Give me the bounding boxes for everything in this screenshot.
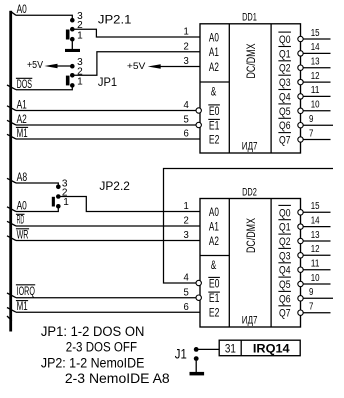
power +5V arrow wire to DD1 pin 3: [148, 64, 200, 69]
wire A1 (bus to DD1 pin 4): [16, 110, 196, 112]
svg-text:11: 11: [311, 259, 320, 270]
bus (address/data bus rail): [9, 11, 12, 332]
DD2 inversion bubble Q4: [298, 267, 303, 272]
svg-text:3: 3: [184, 230, 190, 241]
DD2 output wire Q4 pin 11: [303, 269, 330, 271]
DD2 input label A2: [209, 234, 219, 248]
label M1: [16, 127, 28, 139]
svg-text:5: 5: [184, 115, 190, 126]
DD1 output label Q5: [278, 104, 291, 118]
JP2.2 pin 3 label: [62, 178, 68, 189]
connector J1: [194, 347, 199, 361]
ground under JP2.1: [65, 41, 80, 52]
DD1 inversion bubble Q6: [298, 123, 303, 128]
DD2 enable label E2: [209, 306, 220, 320]
DD1 inversion bubble Q4: [298, 94, 303, 99]
DD1 output label Q2: [278, 61, 291, 75]
svg-text:A1: A1: [209, 45, 219, 59]
DD1 input label A0: [209, 30, 219, 44]
svg-text:JP2.1: JP2.1: [98, 13, 132, 27]
svg-text:12: 12: [311, 244, 320, 255]
DD1 pin 1 number: [184, 27, 190, 38]
svg-text:31: 31: [225, 342, 236, 356]
label IORQ: [16, 284, 35, 298]
svg-text:Q3: Q3: [279, 250, 291, 262]
DD2 output label Q3: [278, 248, 291, 262]
DD1 inversion bubble Q0: [298, 36, 303, 41]
DD1 inversion bubble pin 4: [196, 108, 201, 113]
svg-text:A1: A1: [209, 219, 219, 233]
JP2.1 pin 3 label: [77, 11, 83, 22]
power +5V label (left): [27, 60, 43, 71]
DD1 inversion bubble Q1: [298, 51, 303, 56]
svg-text:RD: RD: [17, 215, 25, 227]
bus stub tick: [7, 316, 12, 321]
svg-text:10: 10: [311, 273, 320, 284]
DD1 AND-qualifier symbol: [211, 87, 217, 99]
svg-text:DOS: DOS: [17, 79, 33, 91]
svg-text:Q1: Q1: [279, 222, 291, 234]
DD2 output pin 9 number: [309, 287, 314, 298]
DD2 output pin 12 number: [311, 244, 320, 255]
DD1 output wire Q5 pin 10: [303, 110, 330, 112]
svg-text:M1: M1: [17, 128, 28, 140]
svg-text:Q3: Q3: [279, 77, 291, 89]
DD1 inversion bubble pin 5: [196, 122, 201, 127]
DD2 output wire Q5 pin 10: [303, 283, 330, 285]
DD1 output wire Q2 pin 13: [303, 67, 330, 69]
DD2 inversion bubble pin 5: [196, 295, 201, 300]
DD1 output pin 13 number: [311, 57, 320, 68]
wire IORQ (bus to DD2 pin 5): [16, 297, 196, 299]
label M1 second: [16, 301, 28, 313]
DD2 pin 6 number: [184, 302, 190, 313]
svg-text:1: 1: [184, 201, 190, 212]
wire DOS (bus to JP1 pin 1): [16, 85, 72, 89]
DD1 inversion bubble Q3: [298, 79, 303, 84]
note JP2 line 2: [65, 371, 170, 386]
DD2 output label Q6: [278, 291, 291, 305]
DD2 output wire Q2 pin 13: [303, 240, 330, 242]
svg-text:E2: E2: [209, 132, 220, 146]
DD2 function label DC/DMX: [244, 218, 258, 253]
DD2 inversion bubble pin 4: [196, 280, 201, 285]
label A1: [17, 99, 27, 111]
wire M1 (bus to DD1 pin 6): [16, 138, 200, 140]
svg-text:ИД7: ИД7: [242, 314, 258, 326]
wire A0 second (bus to JP2.2 pin 1): [16, 206, 58, 211]
bus entry tick A2: [7, 120, 16, 125]
DD2 pin 1 number: [184, 201, 190, 212]
DD1 output pin 11 number: [311, 85, 320, 96]
DD2 pin 5 number: [184, 287, 190, 298]
bus entry tick M1: [7, 134, 16, 139]
label DOS: [16, 78, 32, 91]
DD2 input label A0: [209, 205, 219, 219]
svg-text:3: 3: [184, 56, 190, 67]
svg-text:Q4: Q4: [279, 91, 291, 103]
svg-text:+5V: +5V: [27, 60, 43, 71]
svg-text:A2: A2: [209, 234, 219, 248]
IRQ14 connector box with pin 31: [219, 340, 300, 356]
svg-text:A8: A8: [17, 172, 28, 184]
DD1 output pin 10 number: [311, 100, 320, 111]
note JP1 line 1: [41, 324, 144, 339]
svg-text:E2: E2: [209, 306, 220, 320]
DD2 output wire Q3 pin 12: [303, 254, 330, 256]
svg-text:2: 2: [184, 216, 190, 227]
svg-text:JP1: 1-2 DOS ON: JP1: 1-2 DOS ON: [41, 324, 144, 339]
label WR: [16, 229, 29, 242]
svg-text:IRQ14: IRQ14: [253, 342, 290, 356]
wire A8 (bus to JP2.2 pin 3): [16, 183, 58, 185]
label DD2: [242, 186, 257, 198]
bus entry tick A0: [11, 11, 17, 15]
bus entry tick RD: [7, 221, 16, 226]
DD1 output wire Q7 pin 7: [303, 139, 330, 141]
DD1 input label A2: [209, 60, 219, 74]
DD1 enable label E2: [209, 132, 220, 146]
bus entry tick DOS: [7, 85, 16, 90]
DD1 output pin 9 number: [309, 114, 314, 125]
power +5V arrow wire to JP1 pin 3: [44, 64, 72, 69]
svg-text:Q0: Q0: [279, 34, 291, 46]
label JP2.1: [98, 13, 132, 27]
DD1 output wire Q6 pin 9: [303, 124, 333, 126]
svg-text:2: 2: [184, 41, 190, 52]
DD1 pin 4 number: [184, 100, 190, 111]
DD1 output label Q6: [278, 118, 291, 132]
svg-text:6: 6: [184, 302, 190, 313]
JP2.1 pin 1 label: [77, 30, 83, 41]
DD2 output label Q0: [278, 205, 291, 219]
svg-text:Q2: Q2: [279, 63, 291, 75]
svg-text:&: &: [211, 87, 217, 99]
DD1 output label Q1: [278, 47, 291, 61]
svg-text:Q4: Q4: [279, 265, 291, 277]
DD1 enable label E1: [208, 118, 220, 132]
bus entry tick M1b: [7, 308, 16, 313]
svg-text:13: 13: [311, 57, 320, 68]
svg-text:5: 5: [184, 287, 190, 298]
DD2 AND-qualifier symbol: [211, 260, 217, 272]
svg-text:Q2: Q2: [279, 236, 291, 248]
svg-text:J1: J1: [175, 346, 187, 361]
DD2 input label A1: [209, 219, 219, 233]
DD2 inversion bubble Q3: [298, 253, 303, 258]
DD1 output wire Q1 pin 14: [303, 52, 330, 54]
DD2 pin 2 number: [184, 216, 190, 227]
svg-text:Q7: Q7: [279, 308, 291, 320]
svg-text:12: 12: [311, 71, 320, 82]
svg-text:E1: E1: [209, 291, 220, 305]
svg-text:4: 4: [184, 273, 190, 284]
JP1 pin 3 label: [77, 57, 83, 68]
jumper JP1: [66, 64, 75, 88]
label A0 second: [17, 200, 27, 212]
DD2 pin 4 number: [184, 273, 190, 284]
svg-text:Q5: Q5: [279, 279, 291, 291]
svg-text:E0: E0: [209, 104, 220, 118]
wire RD (bus to DD2 pin 2): [16, 225, 200, 227]
bus entry tick WR: [7, 236, 16, 241]
DD2 output label Q1: [278, 220, 291, 234]
jumper JP2.1: [66, 18, 75, 42]
DD1 pin 3 number: [184, 56, 190, 67]
DD2 output wire Q1 pin 14: [303, 226, 330, 228]
svg-text:Q1: Q1: [279, 48, 291, 60]
label A2: [17, 114, 27, 126]
svg-text:9: 9: [309, 287, 314, 298]
DD2 output label Q7: [278, 306, 291, 320]
DD1 output pin 7 number: [309, 128, 314, 139]
svg-text:2-3 DOS OFF: 2-3 DOS OFF: [66, 340, 137, 355]
DD2 inversion bubble Q5: [298, 281, 303, 286]
svg-text:A1: A1: [17, 99, 27, 111]
svg-text:DC/DMX: DC/DMX: [244, 218, 258, 253]
svg-text:14: 14: [311, 42, 320, 53]
DD1 output wire Q4 pin 11: [303, 95, 330, 97]
JP1 pin 2 label: [77, 66, 83, 77]
svg-text:A2: A2: [209, 60, 219, 74]
DD2 output pin 7 number: [309, 302, 314, 313]
svg-text:Q6: Q6: [279, 120, 291, 132]
DD2 output wire Q7 pin 7: [303, 312, 330, 314]
svg-text:Q7: Q7: [279, 135, 291, 147]
DD2 output pin 11 number: [311, 259, 320, 270]
DD2 output label Q5: [278, 277, 291, 291]
decoder DD1 (K555ID7 DC/DMX) box: [200, 24, 301, 153]
svg-text:13: 13: [311, 230, 320, 241]
svg-text:A0: A0: [209, 205, 219, 219]
JP2.1 pin 2 label: [77, 20, 83, 31]
DD1 output wire Q0 pin 15: [303, 38, 330, 40]
wire JP1 pin 2 to DD1 pin 2: [72, 52, 200, 76]
svg-text:15: 15: [311, 28, 320, 39]
DD1 output label Q0: [278, 32, 291, 46]
DD1 output label Q3: [278, 75, 291, 89]
svg-text:JP1: JP1: [98, 75, 117, 89]
DD1 inversion bubble Q5: [298, 108, 303, 113]
note JP1 line 2: [66, 340, 137, 355]
DD1 inversion bubble Q2: [298, 65, 303, 70]
label J1: [175, 346, 187, 361]
power +5V label (right): [127, 61, 146, 72]
svg-text:1: 1: [184, 27, 190, 38]
DD2 inversion bubble Q1: [298, 224, 303, 229]
DD2 output pin 14 number: [311, 215, 320, 226]
svg-text:4: 4: [184, 100, 190, 111]
bus entry tick IORQ: [7, 293, 16, 298]
DD2 output wire Q6 pin 9: [303, 297, 333, 299]
svg-text:DD2: DD2: [242, 186, 257, 198]
wire J1 pin to IRQ14 box: [198, 348, 219, 350]
DD1 pin 5 number: [184, 115, 190, 126]
svg-text:2-3 NemoIDE A8: 2-3 NemoIDE A8: [65, 371, 170, 386]
svg-text:1: 1: [63, 197, 69, 208]
label A0: [17, 4, 27, 16]
svg-text:1: 1: [77, 76, 83, 87]
bus entry tick A8: [7, 178, 16, 183]
JP1 pin 1 label: [77, 76, 83, 87]
DD2 type label ID7: [242, 314, 258, 326]
DD2 output wire Q0 pin 15: [303, 211, 330, 213]
DD2 inversion bubble Q6: [298, 296, 303, 301]
DD1 output pin 12 number: [311, 71, 320, 82]
svg-text:A0: A0: [17, 200, 27, 212]
DD2 output label Q2: [278, 234, 291, 248]
DD1 output wire Q3 pin 12: [303, 81, 330, 83]
svg-text:A0: A0: [17, 4, 27, 16]
DD1 output label Q7: [278, 133, 291, 147]
label JP2.2: [99, 179, 130, 193]
svg-text:+5V: +5V: [127, 61, 146, 72]
label RD: [16, 214, 25, 226]
svg-text:Q6: Q6: [279, 293, 291, 305]
label JP1: [98, 75, 117, 89]
svg-text:6: 6: [184, 129, 190, 140]
DD1 enable label E0: [208, 104, 220, 118]
svg-text:WR: WR: [17, 229, 29, 241]
DD2 enable label E0: [208, 276, 220, 290]
svg-text:DC/DMX: DC/DMX: [244, 44, 258, 79]
DD2 output pin 13 number: [311, 230, 320, 241]
JP2.2 pin 2 label: [62, 187, 68, 198]
svg-text:E1: E1: [209, 118, 220, 132]
DD1 output pin 15 number: [311, 28, 320, 39]
net label IRQ14: [253, 342, 290, 356]
wire M1 second (bus to DD2 pin 6): [16, 311, 200, 313]
DD1 output pin 14 number: [311, 42, 320, 53]
svg-text:Q5: Q5: [279, 106, 291, 118]
DD2 inversion bubble Q2: [298, 238, 303, 243]
DD1 inversion bubble Q7: [298, 137, 303, 142]
svg-text:14: 14: [311, 215, 320, 226]
svg-text:M1: M1: [17, 301, 28, 313]
svg-text:&: &: [211, 260, 217, 272]
wire DD2 E0 rail (top right to DD2 pin 4): [164, 169, 334, 284]
svg-text:7: 7: [309, 302, 314, 313]
svg-text:JP2: 1-2 NemoIDE: JP2: 1-2 NemoIDE: [41, 356, 145, 371]
wire A0 (bus to JP2.1 pin 3): [16, 15, 72, 18]
svg-text:9: 9: [309, 114, 314, 125]
jumper JP2.2: [52, 185, 61, 209]
wire JP2.1 pin 2 to DD1 pin 1: [72, 29, 200, 37]
DD1 pin 6 number: [184, 129, 190, 140]
decoder DD2 (K555ID7 DC/DMX) box: [200, 199, 301, 328]
svg-text:15: 15: [311, 201, 320, 212]
ground under J1: [190, 361, 205, 376]
label A8: [17, 172, 28, 184]
svg-text:DD1: DD1: [242, 12, 257, 24]
svg-text:Q0: Q0: [279, 207, 291, 219]
DD1 pin 2 number: [184, 41, 190, 52]
DD1 output label Q4: [278, 90, 291, 104]
label DD1: [242, 12, 257, 24]
note JP2 line 1: [41, 356, 145, 371]
svg-text:10: 10: [311, 100, 320, 111]
wire A2 (bus to DD1 pin 5): [16, 124, 196, 126]
svg-text:A0: A0: [209, 30, 219, 44]
DD1 function label DC/DMX: [244, 44, 258, 79]
DD2 inversion bubble Q0: [298, 210, 303, 215]
JP2.2 pin 1 label: [63, 197, 69, 208]
DD2 output label Q4: [278, 263, 291, 277]
DD2 pin 3 number: [184, 230, 190, 241]
svg-text:A2: A2: [17, 114, 27, 126]
pin number 31: [225, 342, 236, 356]
wire JP2.2 pin 2 to DD2 pin 1: [58, 197, 200, 212]
svg-text:IORQ: IORQ: [17, 284, 35, 298]
svg-text:JP2.2: JP2.2: [99, 179, 130, 193]
bus entry tick A0b: [7, 207, 16, 212]
DD2 output pin 15 number: [311, 201, 320, 212]
svg-text:1: 1: [77, 30, 83, 41]
svg-text:E0: E0: [209, 276, 220, 290]
svg-text:11: 11: [311, 85, 320, 96]
DD1 type label ID7: [242, 140, 258, 152]
wire WR (bus to DD2 pin 3): [16, 240, 200, 242]
bus entry tick A1: [7, 106, 16, 111]
svg-text:ИД7: ИД7: [242, 140, 258, 152]
DD1 input label A1: [209, 45, 219, 59]
DD2 inversion bubble Q7: [298, 310, 303, 315]
svg-text:7: 7: [309, 128, 314, 139]
DD2 output pin 10 number: [311, 273, 320, 284]
DD2 enable label E1: [208, 291, 220, 305]
